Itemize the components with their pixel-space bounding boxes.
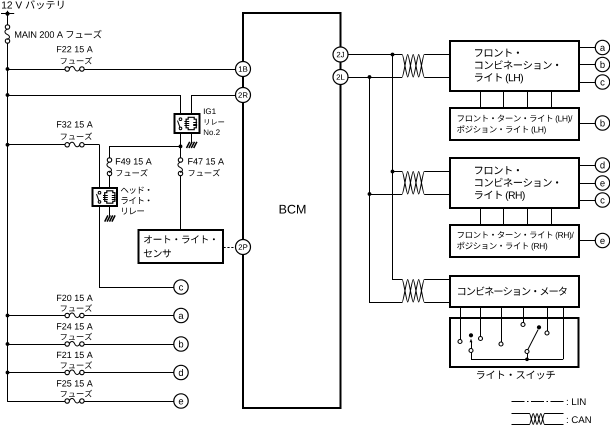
node connector b right (595, 57, 609, 71)
wire 2J to CAN1 (348, 54, 451, 56)
label fuse F32 (57, 121, 93, 140)
wire fuse rail (110, 147, 181, 158)
relay IG1 No.2 box (175, 114, 200, 133)
node connector d left (174, 365, 188, 379)
front turn light RH box (450, 225, 579, 257)
fuse F25 15A (65, 398, 84, 403)
junction rail-F47 (179, 145, 183, 149)
switch pole A lever (469, 339, 473, 353)
wire 2L to CAN1 (348, 77, 451, 79)
label light switch (477, 371, 555, 380)
wire F22 line (8, 69, 237, 71)
wire LH to turn light (481, 91, 552, 108)
wire RH d stub (579, 165, 596, 167)
battery terminal bar (1, 13, 14, 15)
junction rail pole B (525, 358, 529, 362)
wire turn RH e stub (579, 240, 596, 242)
legend CAN label (567, 416, 591, 423)
junction bus-F22 (6, 67, 10, 71)
wire switch lead 1 (460, 307, 462, 340)
node connector e right (595, 176, 609, 190)
node connector c2 right (595, 193, 609, 207)
junction 2J bus (391, 53, 395, 57)
front combination light RH box (450, 158, 579, 208)
label fuse F22 (57, 46, 93, 64)
pin 2P (236, 240, 251, 255)
legend LIN label (567, 398, 586, 405)
wire RH e stub (579, 183, 596, 185)
wire headlight coil to ground (109, 206, 111, 216)
junction 2L bus (368, 75, 372, 79)
wire LIN sensor to 2P (224, 247, 237, 249)
wire IG1 switch to fuse rail (180, 133, 182, 146)
legend CAN twist (530, 414, 545, 425)
wire switch lead 3 (501, 307, 503, 342)
fuse F49 15A (107, 158, 112, 176)
label auto light sensor (144, 235, 215, 257)
legend LIN line (512, 401, 564, 403)
wire IG1 coil to ground (191, 133, 193, 142)
switch pole B lever (525, 330, 538, 354)
label fuse F20 (57, 295, 93, 312)
wire headlight switch to connector c (100, 207, 175, 288)
label front combination light RH (475, 166, 558, 201)
contact 3 (499, 342, 503, 346)
wire battery vertical bus (7, 11, 9, 402)
wire switch lead 6 (563, 307, 565, 359)
fuse F32 15A (65, 142, 84, 147)
wire F47 to auto light sensor (180, 146, 182, 230)
wire RH to turn light (481, 209, 552, 225)
pin 2R (236, 88, 251, 103)
ground headlight relay (105, 215, 115, 221)
wire pole A to rail (471, 353, 473, 360)
relay IG1 coil (184, 117, 197, 129)
label BCM (280, 205, 306, 214)
wire F21 line (8, 372, 175, 374)
junction bus-F20 (6, 314, 10, 318)
wire CAN2 top (393, 171, 451, 173)
node connector b2 right (595, 116, 609, 130)
relay headlight switch (97, 191, 101, 203)
label fuse F25 (57, 380, 93, 397)
wire IG1 relay to 2R (192, 96, 237, 115)
node connector c right (595, 75, 609, 89)
wire F49 to headlight relay coil (109, 176, 111, 188)
contact 1 (458, 340, 462, 344)
junction bus-F24 (6, 342, 10, 346)
label fuse F21 (57, 352, 93, 369)
wire pole B to rail (527, 354, 529, 360)
relay headlight box (93, 188, 118, 206)
label fuse F47 (188, 158, 224, 176)
wire F24 line (8, 344, 175, 346)
wire switch common rail (471, 359, 563, 361)
node connector d right (595, 158, 609, 172)
node connector c left (174, 280, 188, 294)
wire RH c stub (579, 200, 596, 202)
label fuse F49 (116, 158, 152, 176)
ground IG1 relay (187, 142, 197, 148)
node connector e left (174, 394, 188, 408)
switch pole A fixed (469, 333, 473, 337)
wire switch lead 4 (523, 307, 525, 323)
relay IG1 switch (178, 118, 182, 130)
switch pole B fixed (537, 325, 541, 329)
fuse F24 15A (65, 341, 84, 346)
wire battery to IG1 relay switch (8, 96, 181, 115)
fuse MAIN 200A (5, 25, 10, 43)
contact 5 (545, 331, 549, 335)
wire F32 line (8, 145, 100, 189)
wire LH b stub (579, 64, 596, 66)
node connector a right (595, 40, 609, 54)
legend CAN lines (512, 414, 564, 425)
wire switch lead 5 (547, 307, 549, 331)
relay headlight coil (103, 191, 116, 203)
label fuse F24 (57, 323, 93, 340)
junction bus A CAN2 (391, 170, 395, 174)
label front turn light LH (457, 115, 572, 135)
light switch box (450, 318, 579, 367)
node connector a left (174, 308, 188, 322)
wire turn LH b stub (579, 123, 596, 125)
wire CAN bus A vertical (393, 55, 403, 280)
pin 1B (236, 62, 251, 77)
junction bus-F32 (6, 143, 10, 147)
wire LH c stub (579, 82, 596, 84)
node connector b left (174, 337, 188, 351)
junction bus B CAN2 (368, 192, 372, 196)
wire switch lead 2 (480, 307, 482, 337)
twisted pair CAN1 (402, 55, 424, 78)
front turn light LH box (450, 108, 579, 140)
combination meter box (450, 276, 579, 307)
contact 2 (479, 337, 483, 341)
label relay headlight (121, 187, 150, 215)
pin 2L (333, 70, 348, 85)
twisted pair CAN3 (402, 280, 424, 303)
label relay IG1 (204, 108, 224, 135)
label front turn light RH (457, 231, 574, 251)
junction bus-F21 (6, 371, 10, 375)
node 12V battery label (2, 0, 64, 9)
wire F20 line (8, 315, 175, 317)
fuse F47 15A (178, 158, 183, 176)
label combination meter (458, 287, 567, 296)
junction bus-2R (6, 93, 10, 97)
fuse F22 15A (65, 66, 84, 71)
node connector e2 right (595, 233, 609, 247)
wire F25 line (8, 401, 175, 403)
front combination light LH box (450, 41, 579, 91)
twisted pair CAN2 (402, 172, 424, 195)
label front combination light LH (475, 49, 558, 84)
fuse F21 15A (65, 370, 84, 375)
label MAIN 200A fuse (15, 30, 102, 38)
contact 4 (521, 323, 525, 327)
wire CAN2 bottom (370, 194, 451, 196)
wire LH a stub (579, 47, 596, 49)
fuse F20 15A (65, 313, 84, 318)
wire CAN bus B vertical (370, 77, 403, 303)
junction battery terminal (5, 12, 9, 16)
op-amp BCM box (243, 13, 341, 408)
wire CAN3 to meter (424, 280, 450, 303)
auto light sensor box (139, 230, 224, 263)
pin 2J (333, 47, 348, 62)
